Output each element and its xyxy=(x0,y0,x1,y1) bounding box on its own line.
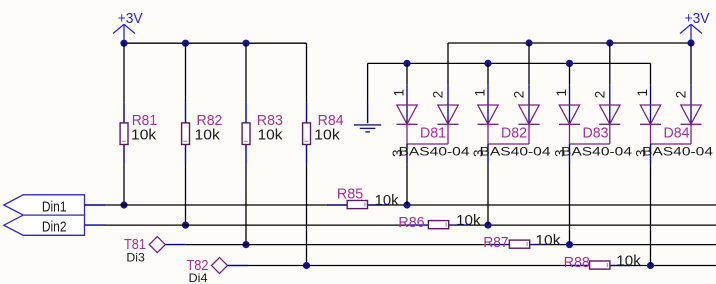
svg-text:D84: D84 xyxy=(664,126,690,142)
svg-text:BAS40-04: BAS40-04 xyxy=(399,144,470,158)
node junction upper rail/D82.2 xyxy=(525,39,532,46)
wire D83 pin3 to row xyxy=(569,164,571,244)
test point T82 (Di4) xyxy=(187,258,249,284)
svg-text:R85: R85 xyxy=(337,186,363,202)
wire R83 column xyxy=(245,43,247,102)
wire D84 pin2 from upper rail xyxy=(690,43,692,85)
node junction rail/R83 xyxy=(242,40,249,47)
wire ground stub xyxy=(367,63,369,103)
node junction lower rail/D82.1 xyxy=(484,60,491,67)
resistor R88 xyxy=(564,254,642,272)
svg-text:D83: D83 xyxy=(583,126,609,142)
svg-text:R86: R86 xyxy=(398,215,424,231)
node junction R82 bottom xyxy=(182,222,189,229)
wire D84 pin1 from lower rail xyxy=(650,63,652,84)
svg-text:10k: 10k xyxy=(616,254,641,270)
svg-text:D81: D81 xyxy=(420,126,446,142)
power +3V (right) xyxy=(680,11,710,43)
svg-text:10k: 10k xyxy=(314,128,340,144)
wire D82 pin2 from upper rail xyxy=(528,43,530,85)
svg-text:10k: 10k xyxy=(375,193,400,209)
diode D81 BAS40-04 xyxy=(390,85,470,165)
svg-text:10k: 10k xyxy=(535,233,561,249)
diode D83 BAS40-04 xyxy=(553,85,633,165)
diode D82 BAS40-04 xyxy=(471,85,551,165)
node junction upper rail/D83.2 xyxy=(606,39,613,46)
wire upper rail (+3V to diode pin2s) xyxy=(448,42,691,44)
svg-text:Di4: Di4 xyxy=(189,271,208,284)
svg-text:1: 1 xyxy=(473,89,488,97)
svg-text:R88: R88 xyxy=(564,255,590,271)
node junction lower rail/D81.1 xyxy=(403,60,410,67)
node junction R88/diode pin3 xyxy=(647,262,654,269)
resistor R81 xyxy=(120,103,157,165)
node junction R86/diode pin3 xyxy=(484,222,491,229)
wire R81 column xyxy=(123,43,125,102)
svg-text:Din2: Din2 xyxy=(42,220,67,236)
connector Din2 xyxy=(4,215,105,235)
node junction R84 bottom xyxy=(303,262,310,269)
svg-text:2: 2 xyxy=(512,91,527,99)
ground xyxy=(354,103,381,132)
wire D81 pin3 to row xyxy=(406,164,408,205)
power +3V (left) xyxy=(113,11,143,43)
node junction +3V/R81 xyxy=(120,40,127,47)
svg-text:D82: D82 xyxy=(501,126,527,142)
wire D82 pin1 from lower rail xyxy=(487,63,489,84)
resistor R82 xyxy=(182,103,223,165)
svg-text:BAS40-04: BAS40-04 xyxy=(561,144,632,158)
svg-text:2: 2 xyxy=(592,91,607,99)
resistor R85 xyxy=(327,186,399,209)
svg-text:+3V: +3V xyxy=(685,11,710,27)
svg-text:10k: 10k xyxy=(456,213,481,229)
node junction rail/R82 xyxy=(182,40,189,47)
node junction lower rail/D83.1 xyxy=(566,60,573,67)
svg-text:1: 1 xyxy=(392,89,407,97)
connector Din1 xyxy=(4,195,105,216)
wire D84 pin3 to row xyxy=(650,164,652,265)
svg-text:2: 2 xyxy=(674,91,689,99)
wire D82 pin3 to row xyxy=(487,164,489,225)
node junction R83 bottom xyxy=(242,241,249,248)
resistor R83 xyxy=(242,103,283,165)
svg-text:BAS40-04: BAS40-04 xyxy=(480,144,551,158)
wire row R88 xyxy=(248,265,569,267)
node junction R85/diode pin3 xyxy=(403,201,410,208)
test point T81 (Di3) xyxy=(124,237,186,265)
svg-text:BAS40-04: BAS40-04 xyxy=(642,144,713,158)
svg-text:10k: 10k xyxy=(195,128,221,144)
svg-text:1: 1 xyxy=(554,89,569,97)
wire top rail from +3V across R81-R84 xyxy=(124,42,307,44)
svg-text:1: 1 xyxy=(635,89,650,97)
resistor R87 xyxy=(483,233,561,251)
svg-text:R87: R87 xyxy=(483,235,508,251)
svg-text:10k: 10k xyxy=(258,128,284,144)
wire row R85 xyxy=(105,204,327,206)
wire R82 column xyxy=(185,43,187,102)
wire lower rail (gnd to diode pin1s) xyxy=(368,62,651,64)
svg-text:Din1: Din1 xyxy=(42,199,67,215)
resistor R86 xyxy=(398,213,481,231)
node junction R87/diode pin3 xyxy=(566,241,573,248)
svg-text:Di3: Di3 xyxy=(126,251,145,265)
node junction +3V/D84.2 xyxy=(687,39,694,46)
wire D81 pin2 from upper rail xyxy=(447,43,449,85)
wire D83 pin2 from upper rail xyxy=(609,43,611,85)
resistor R84 xyxy=(303,103,344,165)
svg-text:2: 2 xyxy=(431,91,446,99)
wire D83 pin1 from lower rail xyxy=(569,63,571,84)
svg-text:+3V: +3V xyxy=(118,11,143,27)
wire D81 pin1 from lower rail xyxy=(406,63,408,84)
svg-text:10k: 10k xyxy=(131,128,157,144)
diode D84 BAS40-04 xyxy=(634,85,714,165)
wire R84 column xyxy=(306,43,308,102)
node junction R81 bottom xyxy=(120,201,127,208)
wire row R86 xyxy=(105,224,408,226)
wire row R87 xyxy=(186,244,489,246)
